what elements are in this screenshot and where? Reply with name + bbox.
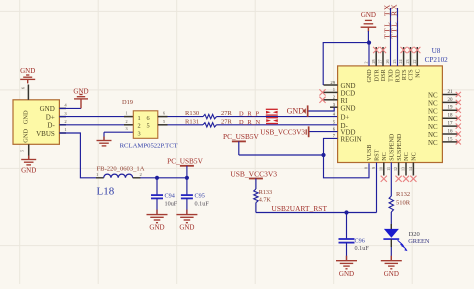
svg-text:NC: NC bbox=[428, 100, 438, 107]
net label TTL_RX (rotated) bbox=[390, 3, 399, 39]
svg-text:D20: D20 bbox=[409, 231, 420, 238]
svg-text:USB_VCC3V3: USB_VCC3V3 bbox=[260, 129, 305, 137]
svg-text:RST: RST bbox=[375, 149, 381, 160]
svg-text:DTR: DTR bbox=[374, 68, 380, 81]
wire RST up to U8 bbox=[376, 163, 378, 213]
U8 pin 3 GND stub bbox=[330, 106, 338, 108]
net label D_R_N bbox=[239, 119, 260, 126]
svg-text:GND: GND bbox=[40, 105, 55, 113]
D19 pin6 stub bbox=[158, 111, 168, 117]
capacitor C94 10uF bbox=[151, 178, 178, 215]
wire R131 to chip D- bbox=[217, 124, 338, 126]
svg-text:8: 8 bbox=[364, 167, 369, 169]
svg-text:RI: RI bbox=[341, 98, 349, 105]
U8 left pin names bbox=[341, 83, 362, 143]
svg-text:RTS: RTS bbox=[402, 69, 408, 80]
svg-text:10: 10 bbox=[378, 167, 383, 171]
svg-text:C95: C95 bbox=[195, 192, 205, 199]
USB pin 3 D+ stub bbox=[59, 111, 67, 117]
svg-text:D+: D+ bbox=[46, 113, 55, 121]
wire USB GND pin4 bbox=[59, 107, 81, 109]
ground below C95 bbox=[176, 210, 197, 232]
net label USB2UART_RST bbox=[272, 204, 328, 213]
svg-text:3: 3 bbox=[138, 130, 141, 137]
ground at D19 pin3 bbox=[97, 137, 112, 146]
svg-text:R132: R132 bbox=[396, 191, 410, 198]
connector USB (yellow body) bbox=[13, 100, 59, 145]
power port PC_USB5V at L18 output bbox=[167, 156, 203, 177]
svg-text:C96: C96 bbox=[355, 237, 365, 244]
U8 right NC pin names bbox=[428, 93, 438, 147]
wire R130 to chip D+ bbox=[217, 116, 338, 118]
svg-text:510R: 510R bbox=[396, 200, 411, 207]
wire L18 to PC_USB5V node bbox=[133, 177, 187, 179]
svg-text:23: 23 bbox=[405, 60, 410, 64]
svg-text:3: 3 bbox=[125, 126, 127, 131]
U8 right pin numbers bbox=[448, 90, 454, 142]
U8 pin 2 RI stub with no-ERC bbox=[319, 97, 337, 103]
svg-text:TTL_RX: TTL_RX bbox=[390, 3, 399, 39]
junction GND top bbox=[367, 41, 371, 45]
resistor R131 27R bbox=[185, 119, 233, 127]
svg-text:GND: GND bbox=[20, 67, 35, 75]
U8 DSR stub with no-ERC bbox=[380, 47, 386, 66]
ground below D20 bbox=[381, 256, 402, 278]
U8 bottom pin numbers bbox=[364, 167, 413, 171]
svg-text:2: 2 bbox=[138, 123, 141, 130]
wire D+ from USB to D19 bbox=[59, 116, 124, 118]
svg-text:SUSPEND: SUSPEND bbox=[390, 133, 396, 161]
svg-text:NC: NC bbox=[416, 69, 422, 77]
wire D20 to ground bbox=[390, 239, 392, 261]
U8 right NC stubs with no-ERC bbox=[442, 92, 461, 145]
wire VBUS from USB to L18 bbox=[59, 133, 103, 178]
resistor R132 510R bbox=[389, 191, 411, 212]
inductor L18 FB-220_0603_1A bbox=[96, 166, 145, 198]
svg-text:D_R_N: D_R_N bbox=[239, 119, 260, 126]
ground GND below USB pin 5 bbox=[21, 156, 36, 175]
differential pair directive on D_R_N bbox=[266, 117, 278, 124]
net label D_R_P bbox=[239, 110, 259, 117]
power port GND at U8 pin 3 bbox=[287, 105, 335, 116]
wire D- from USB to D19 bbox=[59, 124, 124, 126]
svg-text:DSR: DSR bbox=[381, 68, 387, 81]
svg-text:NC: NC bbox=[428, 124, 438, 131]
svg-text:10uF: 10uF bbox=[165, 200, 178, 207]
differential pair directive on D_R_P bbox=[266, 109, 278, 116]
wire TTL_RX from RXD bbox=[397, 8, 399, 66]
svg-text:FB-220_0603_1A: FB-220_0603_1A bbox=[97, 166, 145, 173]
U8 top pin names (rotated) bbox=[367, 68, 421, 82]
svg-text:D19: D19 bbox=[122, 99, 133, 106]
svg-text:D_R_P: D_R_P bbox=[239, 110, 259, 117]
svg-text:25: 25 bbox=[392, 60, 397, 64]
D19 pin3 wire to ground bbox=[104, 126, 133, 140]
svg-text:4.7K: 4.7K bbox=[259, 196, 272, 203]
ground below C94 bbox=[147, 210, 168, 232]
capacitor C96 0.1uF bbox=[339, 213, 370, 261]
svg-text:6: 6 bbox=[147, 115, 150, 122]
svg-text:TXD: TXD bbox=[389, 69, 395, 82]
USB pin 6 shield stub bbox=[21, 85, 29, 100]
svg-text:GREEN: GREEN bbox=[408, 238, 430, 245]
ground GND at USB pin 4 bbox=[73, 87, 88, 108]
svg-text:5: 5 bbox=[20, 150, 25, 152]
svg-text:GND: GND bbox=[367, 69, 373, 83]
svg-text:5: 5 bbox=[163, 119, 165, 124]
svg-text:14: 14 bbox=[408, 167, 413, 171]
resistor R133 4.7K bbox=[254, 179, 272, 213]
svg-text:12: 12 bbox=[393, 167, 398, 171]
svg-text:PC_USB5V: PC_USB5V bbox=[167, 156, 203, 165]
net label TTL_TX (rotated) bbox=[383, 3, 392, 38]
svg-text:6: 6 bbox=[21, 87, 26, 89]
svg-text:GND: GND bbox=[23, 128, 30, 142]
capacitor C95 0.1uF bbox=[181, 178, 209, 215]
svg-text:6: 6 bbox=[163, 111, 165, 116]
U8 RTS stub with no-ERC bbox=[401, 47, 407, 66]
svg-text:CP2102: CP2102 bbox=[425, 56, 449, 64]
svg-text:NC: NC bbox=[382, 152, 388, 160]
USB pin 5 shield stub bbox=[20, 144, 29, 159]
svg-text:24: 24 bbox=[398, 60, 403, 64]
svg-text:L18: L18 bbox=[97, 186, 115, 198]
svg-text:CTS: CTS bbox=[409, 69, 415, 81]
U8 DTR stub with no-ERC bbox=[373, 47, 379, 66]
svg-text:DCD: DCD bbox=[341, 91, 356, 98]
U8 bottom NC stub 14 with no-ERC bbox=[410, 163, 416, 182]
USB pin 2 D- stub bbox=[59, 119, 67, 125]
U8 top NC stub with no-ERC bbox=[414, 47, 420, 66]
ESD diode D19 RCLAMP0522P.TCT bbox=[120, 99, 178, 150]
svg-text:NC: NC bbox=[428, 132, 438, 139]
U8 SUSPEND stub 12 with no-ERC bbox=[396, 163, 402, 182]
junction at C94 bbox=[155, 176, 159, 180]
svg-text:0.1uF: 0.1uF bbox=[195, 200, 210, 207]
U8 bottom pin names (rotated) bbox=[367, 133, 417, 161]
ground GND above USB pin 6 bbox=[20, 67, 35, 83]
svg-text:GND: GND bbox=[341, 105, 356, 112]
svg-text:GND: GND bbox=[341, 83, 356, 90]
svg-text:REGIN: REGIN bbox=[341, 137, 362, 144]
power port USB_VCC3V3 above R133 bbox=[230, 169, 277, 178]
svg-text:PC_USB5V: PC_USB5V bbox=[223, 132, 259, 141]
U8 top pin numbers bbox=[364, 60, 417, 64]
svg-text:R131: R131 bbox=[185, 119, 199, 126]
U8 pin 1 DCD stub with no-ERC bbox=[319, 89, 337, 95]
D19 pin5 stub bbox=[158, 119, 168, 125]
resistor R130 27R bbox=[185, 110, 233, 119]
svg-text:5: 5 bbox=[147, 123, 150, 130]
U8 CTS stub with no-ERC bbox=[407, 47, 413, 66]
svg-text:0.1uF: 0.1uF bbox=[355, 245, 370, 252]
svg-text:2: 2 bbox=[364, 62, 369, 64]
svg-text:1: 1 bbox=[138, 115, 141, 122]
svg-text:28: 28 bbox=[371, 60, 376, 64]
wire R132 to D20 bbox=[390, 212, 392, 230]
svg-text:R130: R130 bbox=[185, 110, 199, 117]
LED D20 GREEN bbox=[383, 224, 429, 251]
IC U8 CP2102 body bbox=[338, 47, 449, 163]
junction REGIN/PC_USB5V bbox=[321, 153, 325, 157]
svg-text:U8: U8 bbox=[432, 47, 441, 55]
svg-text:9: 9 bbox=[371, 167, 376, 169]
svg-text:GND: GND bbox=[23, 110, 30, 124]
U8 bottom NC stub 10 with no-ERC bbox=[381, 163, 387, 182]
svg-text:R133: R133 bbox=[259, 189, 272, 196]
svg-text:VBUS: VBUS bbox=[36, 130, 55, 138]
wire TTL_TX from TXD bbox=[390, 8, 392, 66]
svg-text:VUSB: VUSB bbox=[367, 145, 373, 161]
svg-text:26: 26 bbox=[385, 60, 390, 64]
svg-text:NC: NC bbox=[412, 152, 418, 160]
ground below C96 bbox=[336, 256, 357, 278]
svg-text:GND: GND bbox=[149, 223, 164, 231]
wire D19 pin6 to R130 bbox=[168, 116, 204, 118]
USB pin 1 VBUS stub bbox=[59, 127, 67, 133]
svg-text:D-: D- bbox=[47, 122, 55, 130]
svg-text:C94: C94 bbox=[165, 192, 175, 199]
svg-text:USB2UART_RST: USB2UART_RST bbox=[272, 204, 328, 213]
svg-text:GND: GND bbox=[361, 11, 376, 19]
USB pin 4 GND stub bbox=[59, 103, 67, 109]
U8 pin 29 GND stub bbox=[324, 84, 338, 86]
power port PC_USB5V at REGIN bbox=[223, 132, 323, 155]
svg-text:GND: GND bbox=[339, 270, 354, 278]
power port USB_VCC3V3 at U8 pin 6 VDD bbox=[260, 126, 337, 137]
svg-text:27: 27 bbox=[378, 60, 383, 64]
svg-text:D+: D+ bbox=[341, 115, 350, 122]
svg-text:22: 22 bbox=[412, 60, 417, 64]
svg-text:NC: NC bbox=[428, 140, 438, 147]
wire D19 pin5 to R131 bbox=[168, 124, 204, 126]
wire REGIN to PC_USB5V and VBUS pin bbox=[324, 138, 370, 177]
wire USB2UART_RST bbox=[256, 212, 377, 214]
wire U8 GND net (top) bbox=[323, 31, 369, 85]
svg-text:RXD: RXD bbox=[396, 69, 402, 82]
svg-text:SUSPEND: SUSPEND bbox=[397, 133, 403, 161]
svg-text:13: 13 bbox=[401, 167, 406, 171]
ground GND above U8 bbox=[361, 11, 377, 32]
svg-text:2: 2 bbox=[125, 119, 127, 124]
svg-text:1: 1 bbox=[125, 111, 127, 116]
svg-text:NC: NC bbox=[428, 108, 438, 115]
svg-text:11: 11 bbox=[386, 167, 391, 171]
U8 left pin numbers bbox=[330, 80, 335, 138]
D19 pin2 stub bbox=[124, 119, 133, 125]
svg-text:GND: GND bbox=[21, 167, 36, 175]
junction at C95 bbox=[185, 176, 189, 180]
svg-text:GND: GND bbox=[384, 270, 399, 278]
svg-text:NC: NC bbox=[428, 116, 438, 123]
svg-text:GND: GND bbox=[179, 223, 194, 231]
U8 bottom NC stub 13 with no-ERC bbox=[403, 163, 409, 182]
D19 pin1 stub bbox=[124, 111, 133, 117]
svg-text:GND: GND bbox=[287, 107, 305, 116]
svg-text:NC: NC bbox=[404, 152, 410, 160]
svg-text:RCLAMP0522P.TCT: RCLAMP0522P.TCT bbox=[120, 143, 178, 150]
svg-text:USB_VCC3V3: USB_VCC3V3 bbox=[230, 169, 277, 178]
wire SUSPEND to R132 bbox=[390, 163, 392, 197]
svg-text:29: 29 bbox=[330, 80, 335, 85]
junction at C96 bbox=[344, 210, 348, 214]
svg-text:NC: NC bbox=[428, 93, 438, 100]
